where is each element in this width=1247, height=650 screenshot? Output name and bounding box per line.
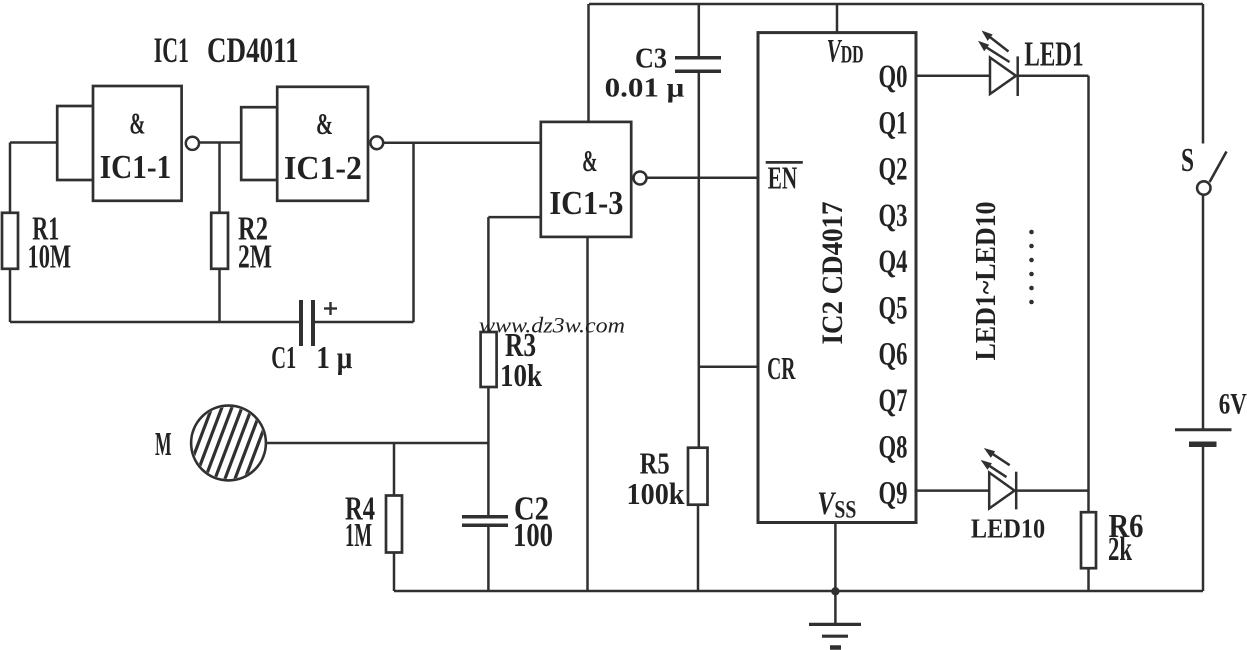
svg-text:Q5: Q5 [879, 290, 908, 326]
svg-text:10k: 10k [500, 357, 542, 393]
svg-text:DD: DD [841, 41, 864, 68]
svg-text:C1: C1 [271, 339, 296, 375]
svg-text:&: & [129, 106, 145, 141]
svg-text:10M: 10M [28, 239, 72, 276]
svg-text:2k: 2k [1108, 531, 1132, 568]
svg-text:Q4: Q4 [879, 244, 908, 280]
svg-text:&: & [316, 106, 333, 141]
svg-text:M: M [155, 426, 172, 463]
svg-text:0.01 μ: 0.01 μ [605, 73, 685, 103]
svg-text:Q0: Q0 [879, 59, 908, 95]
svg-text:Q8: Q8 [879, 429, 908, 465]
svg-text:Q7: Q7 [879, 383, 908, 419]
svg-text:Q9: Q9 [879, 476, 908, 512]
svg-text:CR: CR [767, 350, 796, 386]
svg-text:www.dz3w.com: www.dz3w.com [479, 313, 625, 338]
svg-text:2M: 2M [238, 239, 272, 276]
svg-text:Q6: Q6 [879, 337, 908, 373]
svg-text:IC1-2: IC1-2 [284, 150, 362, 187]
svg-text:6V: 6V [1219, 388, 1247, 421]
svg-text:C3: C3 [635, 43, 667, 75]
svg-text:100: 100 [513, 517, 553, 554]
svg-text:1 μ: 1 μ [316, 339, 352, 375]
svg-text:CD4011: CD4011 [207, 30, 299, 70]
svg-text:LED1~LED10: LED1~LED10 [970, 202, 1002, 361]
svg-text:LED10: LED10 [971, 513, 1045, 543]
svg-text:IC2 CD4017: IC2 CD4017 [816, 202, 849, 345]
svg-text:1M: 1M [345, 517, 372, 554]
svg-text:Q2: Q2 [879, 152, 908, 188]
svg-text:LED1: LED1 [1024, 35, 1083, 74]
svg-text:SS: SS [834, 497, 856, 524]
svg-text:&: & [582, 143, 597, 178]
svg-text:EN: EN [768, 160, 798, 196]
svg-text:IC1-3: IC1-3 [549, 185, 623, 222]
svg-text:Q3: Q3 [879, 198, 908, 234]
svg-text:Q1: Q1 [879, 105, 908, 141]
svg-text:S: S [1181, 142, 1194, 179]
svg-text:IC1-1: IC1-1 [100, 149, 171, 186]
svg-text:IC1: IC1 [154, 30, 189, 70]
svg-text:100k: 100k [627, 476, 686, 511]
